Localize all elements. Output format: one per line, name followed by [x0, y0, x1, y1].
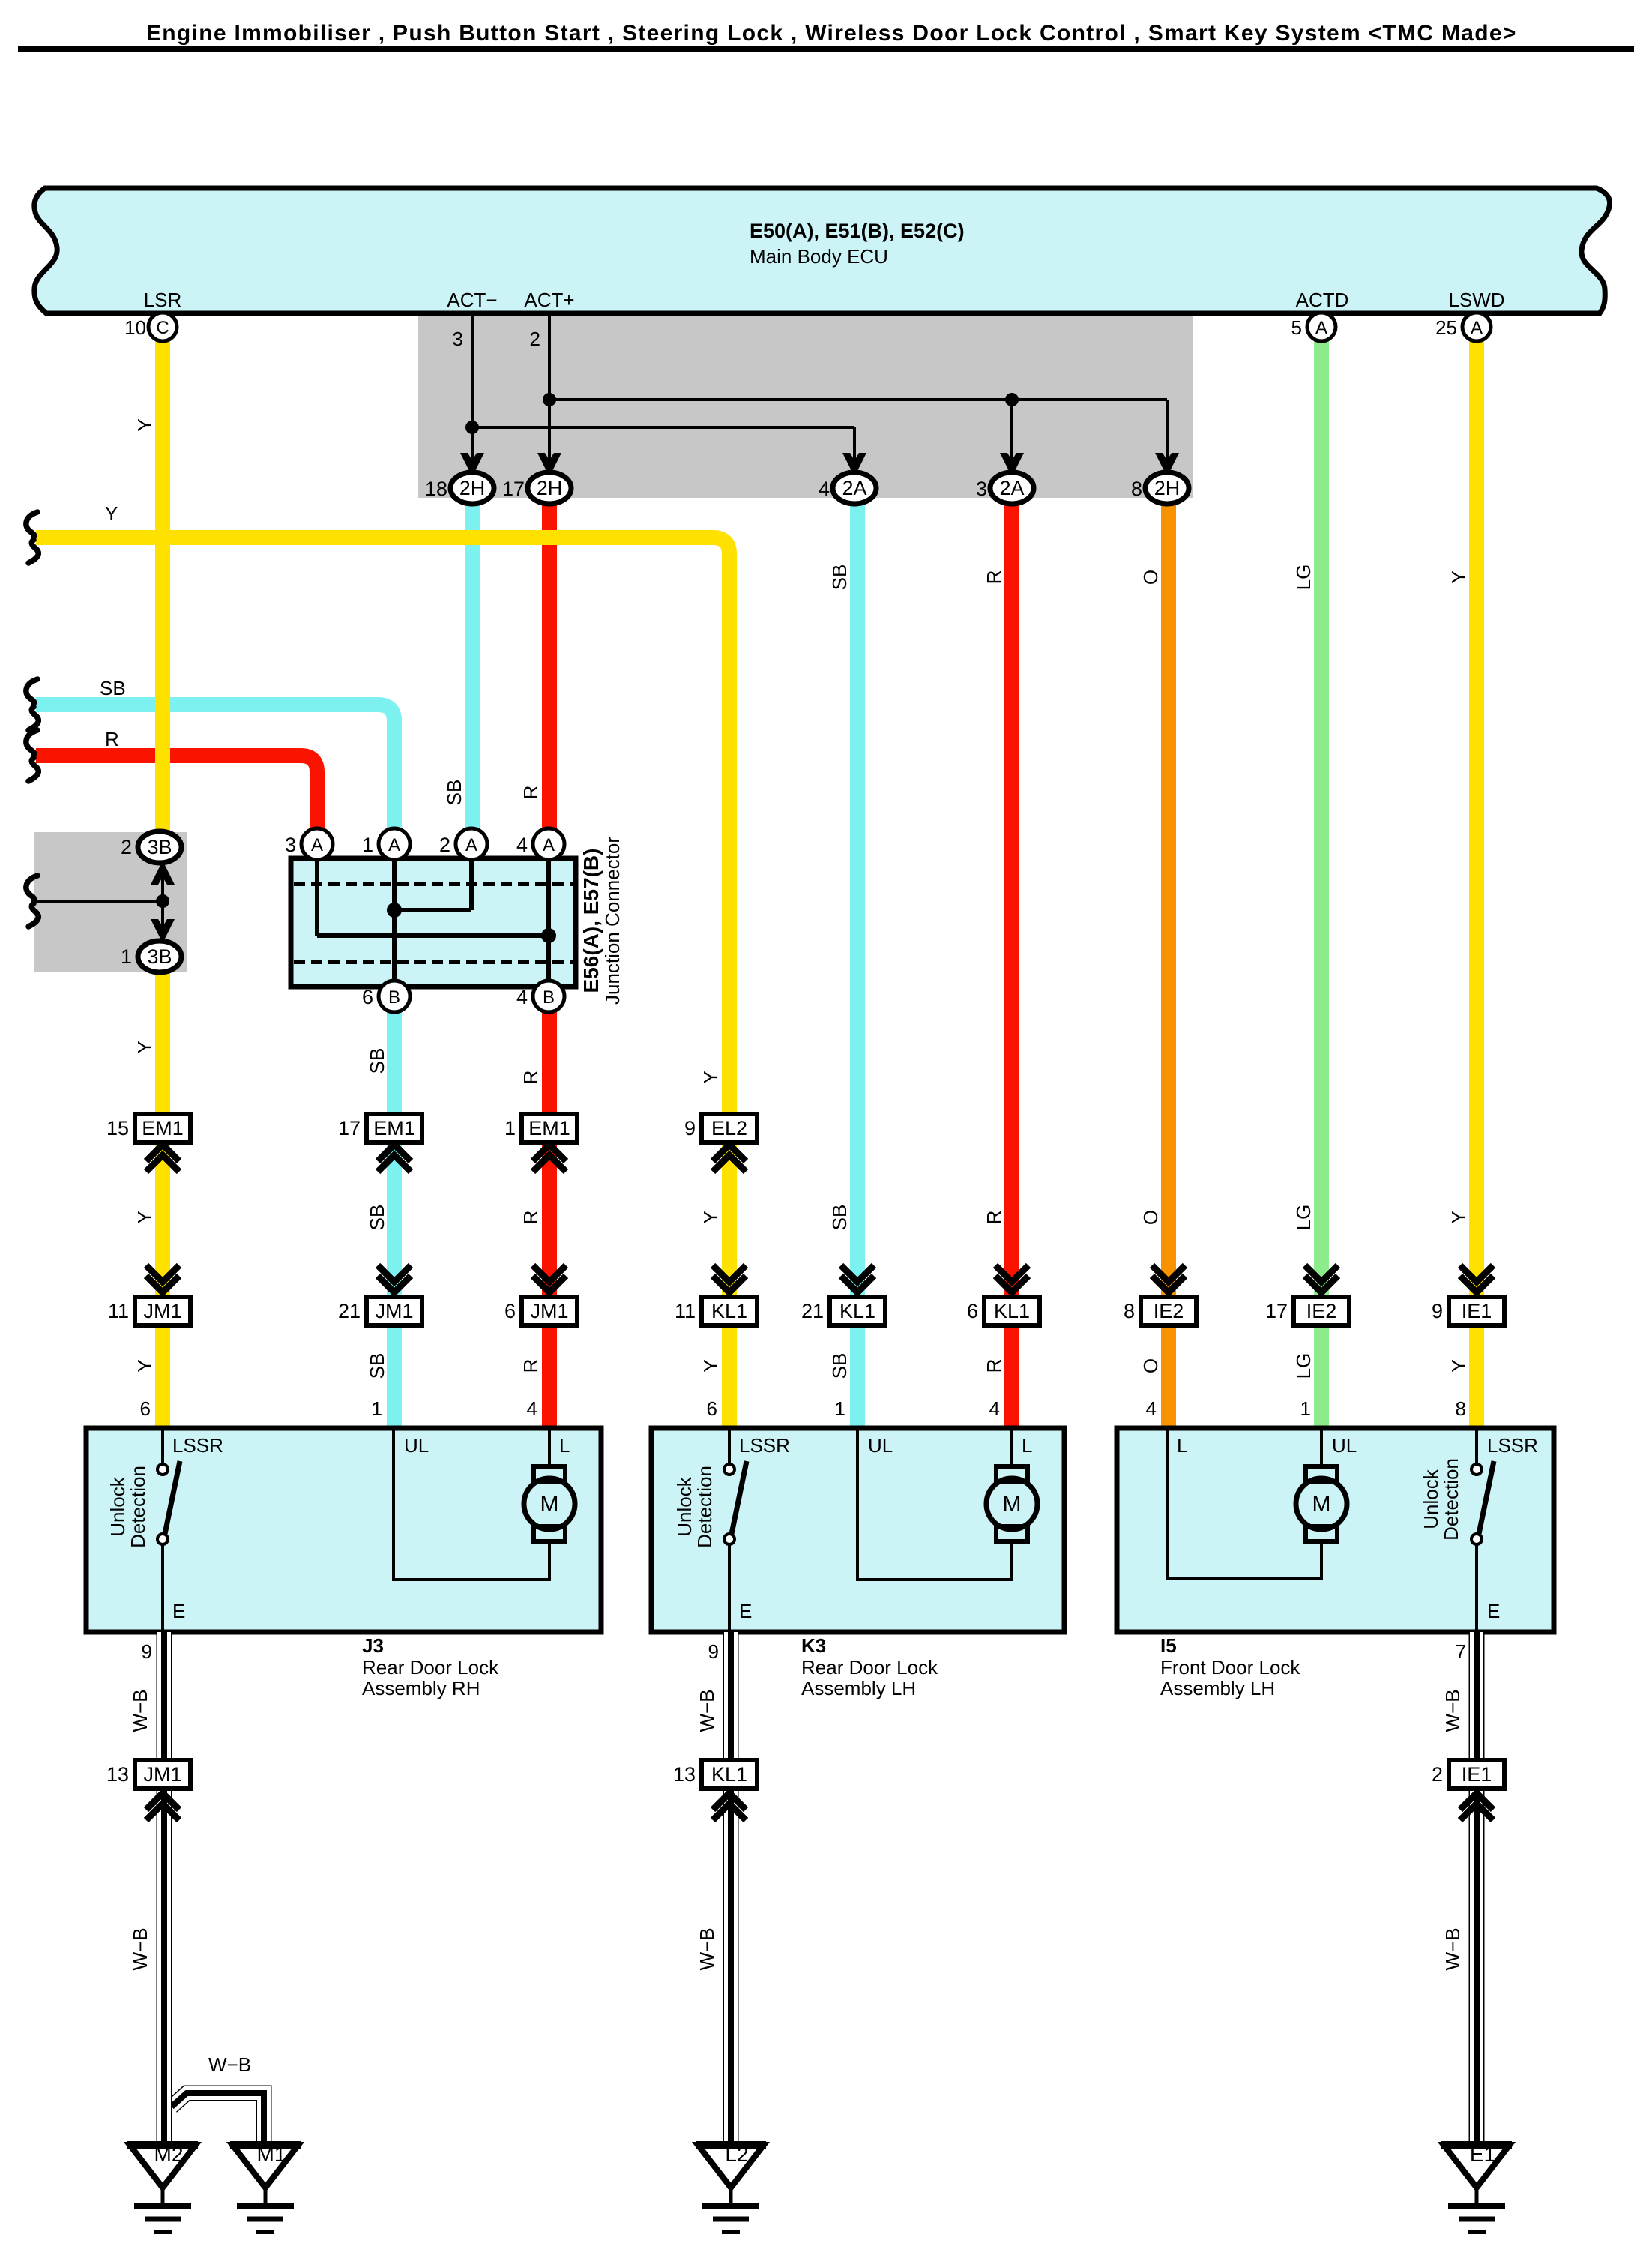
wire SB from 2A-4 to KL1 — [850, 502, 865, 1297]
K3 UL internal wire — [857, 1428, 1012, 1580]
connector 8 IE2 — [1124, 1297, 1196, 1325]
arrow up into 3B-2 — [151, 861, 175, 885]
svg-text:Unlock: Unlock — [106, 1476, 129, 1536]
junction connector dashed row B — [294, 960, 573, 964]
junction dot 2A-3 tap — [1005, 393, 1019, 406]
svg-text:IE1: IE1 — [1462, 1300, 1492, 1322]
I5 Front Door Lock Assembly LH body — [1117, 1428, 1554, 1632]
svg-text:SB: SB — [443, 780, 465, 806]
svg-text:E56(A), E57(B): E56(A), E57(B) — [579, 849, 603, 993]
arrow into 2H-18 — [460, 453, 484, 477]
wire ACT+ pin 2 lead — [548, 316, 551, 463]
wire R from 2H-17 to junction 4A — [542, 502, 557, 828]
svg-text:Unlock: Unlock — [1420, 1469, 1442, 1529]
svg-text:SB: SB — [366, 1048, 388, 1074]
I5 label Unlock Detection — [1420, 1458, 1462, 1541]
wire R from JM1 to J3 L — [542, 1325, 557, 1428]
connector 6 KL1 — [967, 1297, 1040, 1325]
svg-text:17: 17 — [338, 1117, 361, 1139]
K3 motor M — [986, 1428, 1037, 1541]
svg-text:O: O — [1139, 1358, 1162, 1373]
svg-text:JM1: JM1 — [143, 1763, 181, 1786]
svg-text:1: 1 — [835, 1397, 845, 1420]
svg-text:1: 1 — [121, 945, 132, 968]
junction pin 3 A — [301, 828, 333, 860]
wire Y from EL2 to KL1 — [722, 1142, 737, 1297]
svg-text:Y: Y — [133, 1211, 156, 1223]
wire Y horizontal from off-page to EL2 branch — [36, 538, 729, 1114]
chevrons below 1 EM1 — [533, 1145, 566, 1172]
svg-text:L2: L2 — [725, 2143, 748, 2166]
svg-text:B: B — [388, 987, 400, 1008]
svg-text:M2: M2 — [154, 2143, 184, 2166]
svg-text:Front Door Lock: Front Door Lock — [1160, 1656, 1300, 1679]
svg-text:R: R — [105, 728, 119, 750]
svg-text:SB: SB — [828, 564, 851, 591]
svg-text:6: 6 — [140, 1397, 151, 1420]
svg-text:8: 8 — [1124, 1300, 1135, 1322]
svg-text:EM1: EM1 — [528, 1117, 570, 1139]
svg-text:LG: LG — [1292, 1353, 1315, 1379]
svg-text:1: 1 — [362, 834, 373, 856]
svg-text:A: A — [1315, 318, 1327, 338]
K3 Rear Door Lock Assembly LH body — [651, 1428, 1064, 1632]
junction pin 4 B — [533, 981, 564, 1012]
junction pin 4 A — [533, 828, 564, 860]
chevrons above 11 JM1 — [146, 1265, 179, 1292]
svg-text:LSSR: LSSR — [739, 1434, 790, 1457]
svg-text:A: A — [465, 835, 477, 855]
svg-text:E1: E1 — [1470, 2143, 1495, 2166]
svg-text:13: 13 — [673, 1763, 696, 1786]
svg-text:O: O — [1139, 570, 1162, 585]
chevrons above 9 IE1 — [1460, 1265, 1493, 1292]
svg-text:9: 9 — [1432, 1300, 1443, 1322]
svg-text:A: A — [543, 835, 555, 855]
svg-text:I5: I5 — [1160, 1634, 1177, 1657]
svg-text:E: E — [739, 1600, 752, 1622]
svg-text:SB: SB — [828, 1205, 851, 1231]
svg-text:17: 17 — [1265, 1300, 1288, 1322]
svg-text:9: 9 — [684, 1117, 696, 1139]
connector 9 IE1 — [1432, 1297, 1504, 1325]
chevrons below 13 KL1 — [713, 1793, 746, 1820]
connector 2A pin 3 — [990, 472, 1034, 504]
J3 unlock detection switch — [157, 1428, 180, 1632]
svg-text:M1: M1 — [257, 2143, 286, 2166]
wire W-B branch to M1 — [172, 2093, 264, 2146]
svg-text:2H: 2H — [1154, 477, 1181, 499]
chevrons above 21 JM1 — [378, 1265, 411, 1292]
I5 unlock detection switch — [1471, 1428, 1494, 1632]
wire W-B K3 E to KL1 — [723, 1632, 739, 1760]
chevrons above 11 KL1 — [713, 1265, 746, 1292]
svg-text:JM1: JM1 — [530, 1300, 568, 1322]
chevrons below 2 IE1 — [1460, 1793, 1493, 1820]
svg-text:A: A — [1471, 318, 1483, 338]
wire SB from 2H-18 to junction 2A — [465, 502, 480, 828]
svg-text:LG: LG — [1292, 564, 1315, 591]
wire Y from IE1 to I5 LSSR — [1469, 1325, 1484, 1428]
wire ACT+ branch to 2A-3 and 2H-8 — [549, 398, 1167, 401]
off-page squiggle 3B — [26, 876, 38, 927]
connector 2H pin 8 — [1145, 472, 1189, 504]
junction internal bus 4A-4B — [546, 861, 551, 984]
wire Y from LSWD to IE1 — [1469, 340, 1484, 1297]
connector 15 EM1 — [106, 1114, 190, 1142]
connector 21 KL1 — [801, 1297, 885, 1325]
wire O from 2H-8 to IE2 — [1161, 502, 1176, 1297]
chevrons below 15 EM1 — [146, 1145, 179, 1172]
svg-text:9: 9 — [708, 1640, 719, 1663]
svg-text:ACT−: ACT− — [447, 289, 497, 311]
svg-text:15: 15 — [106, 1117, 129, 1139]
svg-text:1: 1 — [372, 1397, 382, 1420]
gray harness region (3B connector) — [34, 832, 187, 972]
svg-text:ACTD: ACTD — [1296, 289, 1349, 311]
connector 13 JM1 — [106, 1760, 190, 1789]
svg-text:Y: Y — [699, 1211, 722, 1223]
svg-text:E: E — [1487, 1600, 1500, 1622]
junction connector E56(A) E57(B) body — [291, 858, 576, 987]
connector 3B pin 2 — [138, 831, 181, 863]
svg-text:W−B: W−B — [1441, 1689, 1464, 1732]
svg-text:ACT+: ACT+ — [524, 289, 574, 311]
svg-text:4: 4 — [516, 834, 528, 856]
wire W-B JM1 to ground M2 — [157, 1791, 172, 2146]
wire SB from JM1 to J3 UL — [387, 1325, 402, 1428]
K3 unlock detection switch — [724, 1428, 747, 1632]
svg-text:UL: UL — [404, 1434, 429, 1457]
svg-text:Y: Y — [1447, 1359, 1470, 1372]
svg-text:Y: Y — [133, 1041, 156, 1053]
svg-text:3: 3 — [453, 328, 463, 350]
svg-text:4: 4 — [819, 478, 830, 500]
ECU pin 10 C (LSR) — [148, 313, 177, 341]
svg-text:L: L — [1177, 1434, 1187, 1457]
J3 motor M — [524, 1428, 575, 1541]
junction dot ACT- tap — [465, 421, 479, 434]
ground M2 — [127, 2143, 198, 2232]
svg-text:R: R — [519, 1071, 542, 1085]
J3 Rear Door Lock Assembly RH body — [86, 1428, 601, 1632]
svg-text:EM1: EM1 — [373, 1117, 415, 1139]
svg-text:IE2: IE2 — [1154, 1300, 1184, 1322]
svg-text:E50(A), E51(B), E52(C): E50(A), E51(B), E52(C) — [750, 220, 965, 242]
svg-text:IE2: IE2 — [1306, 1300, 1337, 1322]
svg-text:LSSR: LSSR — [172, 1434, 223, 1457]
svg-text:9: 9 — [142, 1640, 152, 1663]
chevrons below 9 EL2 — [713, 1145, 746, 1172]
svg-text:6: 6 — [707, 1397, 717, 1420]
title underline — [18, 46, 1634, 52]
ground E1 — [1441, 2143, 1512, 2232]
junction internal link to 2A — [394, 908, 471, 912]
wire ACT- pin 3 lead — [471, 316, 474, 463]
svg-text:Y: Y — [1447, 570, 1470, 583]
chevrons above 6 JM1 — [533, 1265, 566, 1292]
wire R from junction 4B to EM1 — [542, 1012, 557, 1114]
svg-text:W−B: W−B — [696, 1689, 718, 1732]
svg-text:O: O — [1139, 1210, 1162, 1225]
svg-text:SB: SB — [828, 1353, 851, 1379]
svg-text:W−B: W−B — [129, 1689, 151, 1732]
svg-text:2A: 2A — [999, 477, 1024, 499]
svg-text:LG: LG — [1292, 1205, 1315, 1231]
connector 13 KL1 — [673, 1760, 757, 1789]
wire W-B KL1 to ground L2 — [723, 1791, 739, 2146]
K3 label Unlock Detection — [673, 1466, 716, 1548]
wire R from KL1 to K3 L — [1004, 1325, 1019, 1428]
svg-text:Rear Door Lock: Rear Door Lock — [801, 1656, 938, 1679]
svg-text:8: 8 — [1131, 478, 1142, 500]
svg-text:R: R — [983, 1211, 1005, 1225]
junction connector dashed row A — [294, 882, 573, 886]
svg-text:B: B — [543, 987, 555, 1008]
wire R horizontal from off-page — [36, 756, 317, 828]
I5 L internal wire — [1167, 1428, 1321, 1579]
svg-text:6: 6 — [967, 1300, 978, 1322]
junction internal dot at 4-line — [541, 928, 556, 943]
svg-text:SB: SB — [100, 677, 126, 699]
junction pin 6 B — [379, 981, 410, 1012]
svg-text:R: R — [519, 1211, 542, 1225]
svg-text:25: 25 — [1435, 316, 1457, 339]
svg-text:1: 1 — [1300, 1397, 1311, 1420]
svg-text:UL: UL — [868, 1434, 893, 1457]
svg-text:Junction Connector: Junction Connector — [601, 837, 624, 1005]
J3 label Unlock Detection — [106, 1466, 149, 1548]
junction dot ACT+ tap — [543, 393, 556, 406]
off-page squiggle SB — [26, 679, 38, 730]
svg-text:LSWD: LSWD — [1448, 289, 1504, 311]
svg-text:Y: Y — [1447, 1211, 1470, 1223]
arrow into 2H-17 — [537, 453, 561, 477]
svg-text:Detection: Detection — [693, 1466, 716, 1548]
svg-text:Detection: Detection — [127, 1466, 149, 1548]
ECU E50/E51/E52 Main Body ECU bar — [34, 188, 1610, 313]
junction internal bus 3A — [315, 861, 319, 936]
svg-text:R: R — [519, 786, 542, 800]
svg-text:2: 2 — [439, 834, 450, 856]
svg-text:KL1: KL1 — [711, 1763, 747, 1786]
svg-text:Y: Y — [699, 1359, 722, 1372]
off-page squiggle R — [26, 730, 38, 781]
chevrons below 13 JM1 — [146, 1793, 179, 1820]
connector 21 JM1 — [338, 1297, 422, 1325]
svg-text:6: 6 — [362, 986, 373, 1008]
wire SB from EM1 to JM1 — [387, 1142, 402, 1297]
svg-text:LSSR: LSSR — [1487, 1434, 1538, 1457]
wire SB horizontal from off-page — [36, 705, 394, 828]
svg-text:6: 6 — [504, 1300, 516, 1322]
junction internal bus 1A-6B — [392, 861, 397, 984]
svg-text:11: 11 — [108, 1300, 129, 1322]
connector 2A pin 4 — [833, 472, 876, 504]
wire SB from KL1 to K3 UL — [850, 1325, 865, 1428]
svg-text:SB: SB — [366, 1353, 388, 1379]
svg-text:JM1: JM1 — [375, 1300, 413, 1322]
wire SB from junction 6B to EM1 — [387, 1012, 402, 1114]
svg-text:Engine Immobiliser , Push Butt: Engine Immobiliser , Push Button Start ,… — [146, 21, 1517, 46]
wire Y from LSR pin to 3B — [155, 340, 170, 832]
I5 motor M — [1296, 1428, 1347, 1541]
chevrons above 21 KL1 — [841, 1265, 874, 1292]
wire Y from 3B to EM1 — [155, 972, 170, 1114]
off-page squiggle Y — [26, 512, 38, 563]
wire W-B IE1 to ground E1 — [1469, 1791, 1485, 2146]
svg-text:2: 2 — [121, 836, 132, 858]
svg-text:M: M — [1003, 1492, 1022, 1517]
svg-text:Y: Y — [133, 418, 156, 431]
connector 6 JM1 — [504, 1297, 577, 1325]
svg-text:8: 8 — [1456, 1397, 1466, 1420]
svg-text:4: 4 — [527, 1397, 537, 1420]
svg-text:LSR: LSR — [144, 289, 182, 311]
svg-text:C: C — [156, 318, 169, 338]
connector 2H pin 18 — [450, 472, 494, 504]
svg-text:Y: Y — [699, 1071, 722, 1083]
svg-text:2A: 2A — [842, 477, 866, 499]
svg-text:KL1: KL1 — [839, 1300, 875, 1322]
svg-text:R: R — [983, 1359, 1005, 1373]
junction pin 1 A — [379, 828, 410, 860]
svg-text:2: 2 — [530, 328, 540, 350]
chevrons above 17 IE2 — [1305, 1265, 1338, 1292]
ground L2 — [696, 2143, 766, 2232]
svg-text:E: E — [172, 1600, 185, 1622]
svg-text:3B: 3B — [147, 836, 172, 858]
connector 2 IE1 — [1432, 1760, 1504, 1789]
svg-text:JM1: JM1 — [143, 1300, 181, 1322]
wire LG from IE2 to I5 UL — [1314, 1325, 1329, 1428]
wire 3B link to off-page — [34, 900, 163, 903]
connector 1 EM1 — [504, 1114, 577, 1142]
svg-text:17: 17 — [502, 478, 525, 500]
svg-text:Y: Y — [133, 1359, 156, 1372]
svg-text:J3: J3 — [362, 1634, 384, 1657]
svg-text:7: 7 — [1456, 1640, 1466, 1663]
svg-text:3: 3 — [976, 478, 987, 500]
ground M1 — [230, 2143, 301, 2232]
arrow into 2A-4 — [842, 453, 866, 477]
svg-text:4: 4 — [989, 1397, 1000, 1420]
junction internal dot at 1-line — [387, 903, 402, 918]
svg-text:K3: K3 — [801, 1634, 826, 1657]
svg-text:M: M — [1312, 1492, 1331, 1517]
svg-text:4: 4 — [516, 986, 528, 1008]
svg-text:1: 1 — [504, 1117, 516, 1139]
svg-text:M: M — [540, 1492, 559, 1517]
wire W-B J3 E to JM1 — [157, 1632, 172, 1760]
wire Y from EM1 to JM1 — [155, 1142, 170, 1297]
svg-text:SB: SB — [366, 1205, 388, 1231]
svg-text:Rear Door Lock: Rear Door Lock — [362, 1656, 499, 1679]
svg-text:EL2: EL2 — [711, 1117, 747, 1139]
svg-text:L: L — [1022, 1434, 1032, 1457]
svg-text:Unlock: Unlock — [673, 1476, 696, 1536]
svg-text:18: 18 — [425, 478, 447, 500]
svg-text:L: L — [559, 1434, 570, 1457]
chevrons above 6 KL1 — [995, 1265, 1028, 1292]
connector 2H pin 17 — [528, 472, 571, 504]
svg-text:W−B: W−B — [129, 1927, 151, 1970]
svg-text:3: 3 — [285, 834, 296, 856]
wire Y from JM1 to J3 LSSR — [155, 1325, 170, 1428]
junction dot 3B link — [156, 894, 169, 908]
junction pin 2 A — [456, 828, 487, 860]
arrow down into 3B-1 — [151, 919, 175, 943]
svg-text:2H: 2H — [537, 477, 563, 499]
ECU pin 25 A (LSWD) — [1462, 313, 1491, 341]
svg-text:W−B: W−B — [1441, 1927, 1464, 1970]
svg-text:EM1: EM1 — [142, 1117, 184, 1139]
svg-text:W−B: W−B — [696, 1927, 718, 1970]
ECU pin 5 A (ACTD) — [1307, 313, 1336, 341]
gray harness region (ACT wiring) — [418, 316, 1193, 498]
svg-text:W−B: W−B — [208, 2053, 251, 2076]
svg-text:KL1: KL1 — [994, 1300, 1030, 1322]
connector 11 JM1 — [108, 1297, 190, 1325]
arrow into 2H-8 — [1155, 453, 1179, 477]
svg-text:4: 4 — [1146, 1397, 1157, 1420]
svg-text:R: R — [519, 1359, 542, 1373]
connector 17 EM1 — [338, 1114, 422, 1142]
svg-text:5: 5 — [1291, 316, 1302, 339]
wire R from 2A-3 to KL1 — [1004, 502, 1019, 1297]
svg-text:Assembly LH: Assembly LH — [1160, 1677, 1275, 1699]
svg-text:Assembly LH: Assembly LH — [801, 1677, 916, 1699]
svg-text:10: 10 — [124, 316, 146, 339]
chevrons below 17 EM1 — [378, 1145, 411, 1172]
connector 9 EL2 — [684, 1114, 757, 1142]
chevrons above 8 IE2 — [1152, 1265, 1185, 1292]
arrow into 2A-3 — [1000, 453, 1024, 477]
svg-text:2H: 2H — [459, 477, 486, 499]
wire ACT- branch to 2A-4 — [472, 426, 854, 429]
connector 17 IE2 — [1265, 1297, 1349, 1325]
svg-text:A: A — [388, 835, 400, 855]
svg-text:Main Body ECU: Main Body ECU — [750, 245, 888, 268]
svg-text:3B: 3B — [147, 945, 172, 968]
svg-text:13: 13 — [106, 1763, 129, 1786]
svg-text:UL: UL — [1332, 1434, 1357, 1457]
svg-text:21: 21 — [338, 1300, 361, 1322]
J3 UL internal wire — [394, 1428, 549, 1580]
wire LG from ACTD to IE2 — [1314, 340, 1329, 1297]
svg-text:KL1: KL1 — [711, 1300, 747, 1322]
svg-text:Assembly RH: Assembly RH — [362, 1677, 480, 1699]
connector 3B pin 1 — [138, 941, 181, 972]
wire between 3B pins — [161, 866, 164, 937]
wire W-B I5 E to IE1 — [1469, 1632, 1485, 1760]
svg-text:Detection: Detection — [1440, 1458, 1462, 1541]
connector 11 KL1 — [675, 1297, 757, 1325]
wire Y from KL1 to K3 LSSR — [722, 1325, 737, 1428]
svg-text:11: 11 — [675, 1300, 696, 1322]
wire O from IE2 to I5 L — [1161, 1325, 1176, 1428]
svg-text:IE1: IE1 — [1462, 1763, 1492, 1786]
svg-text:2: 2 — [1432, 1763, 1443, 1786]
wire R from EM1 to JM1 — [542, 1142, 557, 1297]
svg-text:A: A — [311, 835, 323, 855]
svg-text:Y: Y — [105, 502, 118, 525]
svg-text:R: R — [983, 570, 1005, 585]
svg-text:21: 21 — [801, 1300, 824, 1322]
